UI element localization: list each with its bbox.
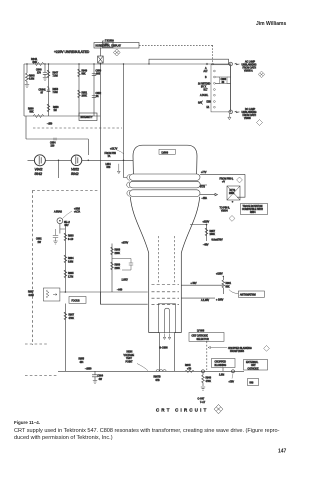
secondary tap -15A with arrow: [200, 193, 218, 195]
svg-text:Jim Williams: Jim Williams: [256, 21, 286, 27]
svg-text:R860: R860: [28, 109, 34, 111]
resistor R867B: [64, 312, 67, 320]
svg-text:5642: 5642: [35, 172, 43, 176]
svg-text:50K: 50K: [30, 112, 35, 114]
wire left rail: [23, 64, 25, 116]
chopped blanking source note: [208, 347, 227, 349]
svg-text:+V: +V: [222, 182, 225, 184]
svg-text:FROM CATH: FROM CATH: [243, 67, 257, 70]
svg-text:VOLTAGE: VOLTAGE: [124, 354, 135, 357]
svg-text:0.6m0/78V: 0.6m0/78V: [212, 240, 224, 242]
svg-text:.01: .01: [96, 96, 100, 98]
svg-text:545: 545: [107, 167, 112, 169]
svg-text:UNBLANKING: UNBLANKING: [242, 64, 257, 67]
astigmatism branch: [181, 284, 223, 286]
diamond symbol: [257, 120, 263, 126]
svg-text:V1035: V1035: [244, 118, 251, 120]
node junctions on top bus: [26, 63, 149, 64]
svg-text:A: A: [205, 67, 207, 70]
svg-text:7A: 7A: [108, 155, 111, 158]
svg-text:BLT: BLT: [204, 90, 209, 92]
svg-text:BY X: BY X: [201, 86, 207, 88]
svg-text:R857: R857: [210, 231, 216, 233]
svg-text:C808: C808: [221, 79, 227, 81]
resistor R843 to ground: [26, 64, 29, 84]
svg-text:+7B: +7B: [187, 368, 192, 370]
svg-text:+0.7A: +0.7A: [74, 211, 81, 214]
svg-text:2.7M: 2.7M: [68, 276, 73, 278]
svg-text:ALT: ALT: [204, 70, 209, 73]
wire feedback loop: [237, 174, 245, 197]
svg-text:+ 105V: + 105V: [216, 300, 224, 302]
svg-text:TRACE ROTATION: TRACE ROTATION: [243, 205, 263, 208]
svg-text:POINT: POINT: [126, 361, 134, 363]
box chopped blanking: [212, 359, 236, 368]
box intensity: [79, 113, 97, 121]
capacitor C854 inline: [54, 138, 56, 141]
diamond symbol below display box: [113, 49, 120, 56]
wire intensity line -150V: [24, 115, 100, 117]
wire drop into transformer primary: [124, 160, 127, 177]
svg-text:+10M: +10M: [74, 209, 80, 211]
capacitor C850 C852 column: [93, 64, 95, 116]
svg-text:16 W/TEND: 16 W/TEND: [198, 83, 211, 85]
socket pins: [214, 70, 216, 108]
svg-text:HIGH: HIGH: [127, 352, 133, 354]
wire -1850 rail (long vertical): [99, 64, 101, 304]
svg-text:7–17: 7–17: [200, 402, 206, 404]
svg-text:UNBLANKING: UNBLANKING: [242, 111, 257, 114]
box external CRT cathode: [244, 360, 268, 371]
svg-text:+ 50V: + 50V: [191, 283, 198, 285]
svg-text:CHOPPED: CHOPPED: [215, 361, 227, 363]
svg-text:FROM PIN: FROM PIN: [105, 153, 117, 155]
diamond symbol: [258, 71, 264, 77]
svg-text:R776: R776: [230, 190, 236, 192]
svg-text:FROM CATH: FROM CATH: [243, 114, 257, 117]
svg-text:R867: R867: [69, 315, 75, 317]
heater filament: [165, 308, 170, 332]
svg-text:CRT CATHODE: CRT CATHODE: [192, 335, 209, 338]
svg-text:R864: R864: [68, 258, 74, 260]
svg-text:R867B: R867B: [154, 377, 161, 379]
diode CR841: [47, 89, 51, 92]
svg-text:4W: 4W: [99, 379, 103, 381]
svg-text:−15A: −15A: [202, 197, 208, 200]
wire neon to divider: [60, 224, 66, 234]
svg-text:R868: R868: [115, 250, 121, 252]
svg-text:548: 548: [250, 383, 255, 385]
svg-text:100K: 100K: [82, 96, 88, 98]
svg-text:L854: L854: [106, 164, 112, 166]
svg-text:INTENSITY: INTENSITY: [81, 117, 93, 119]
transformer winding band 1: [130, 174, 201, 180]
svg-text:97: 97: [41, 93, 44, 95]
svg-text:COMPATIBLE WITH: COMPATIBLE WITH: [242, 208, 263, 211]
svg-text:Figure 11–4.: Figure 11–4.: [14, 420, 40, 425]
svg-text:ASTIGMATISM: ASTIGMATISM: [240, 294, 256, 297]
svg-text:R849: R849: [82, 71, 88, 73]
svg-text:5642: 5642: [71, 172, 79, 176]
svg-text:8–C806: 8–C806: [160, 348, 169, 350]
arrow current direction: [117, 164, 120, 174]
svg-text:C850: C850: [96, 71, 102, 73]
wire grid electrode: [100, 292, 147, 304]
svg-text:−150: −150: [47, 124, 53, 126]
svg-text:FROM PIN 6,: FROM PIN 6,: [220, 179, 234, 181]
svg-text:R865: R865: [68, 273, 74, 275]
resistor R849 R851 column: [78, 64, 80, 116]
diamond symbol: [264, 346, 270, 352]
svg-text:220K: 220K: [115, 268, 121, 270]
svg-text:E1: E1: [207, 107, 211, 109]
svg-text:C852: C852: [96, 93, 102, 95]
svg-text:+77V: +77V: [201, 172, 207, 174]
heater winding on bottom wire: [156, 370, 166, 372]
svg-text:R863: R863: [68, 236, 74, 238]
resistor R845 inline: [185, 370, 194, 373]
resistor R841 inline: [33, 62, 44, 65]
potentiometer P866 focus: [43, 288, 60, 301]
svg-text:220K: 220K: [115, 253, 121, 255]
svg-text:EXTERNAL: EXTERNAL: [246, 361, 259, 364]
transformer T801 CRT envelope: [133, 145, 197, 174]
svg-text:1M: 1M: [54, 110, 57, 112]
ground: [43, 78, 47, 81]
capacitor C863: [112, 259, 133, 271]
svg-text:147: 147: [278, 449, 287, 455]
svg-text:TEST: TEST: [126, 358, 132, 360]
node junction at V852 output: [88, 160, 90, 162]
svg-text:R847: R847: [53, 73, 59, 75]
svg-text:R845: R845: [185, 365, 191, 367]
terminal cathode: [232, 370, 235, 373]
svg-text:R851: R851: [82, 93, 88, 95]
CRT grid dashed electrodes in neck: [152, 284, 180, 286]
ground: [201, 387, 205, 390]
svg-text:AC LAMP: AC LAMP: [245, 61, 256, 64]
wire focus electrode: [60, 291, 148, 293]
svg-text:1W: 1W: [38, 242, 42, 244]
svg-text:50K: 50K: [226, 286, 231, 288]
terminal AC unblanking: [229, 62, 233, 66]
svg-text:3.9M: 3.9M: [68, 261, 73, 263]
box focus: [69, 297, 86, 304]
svg-text:duced with permission of Tektr: duced with permission of Tektronix, Inc.…: [14, 435, 113, 441]
svg-text:7.5M: 7.5M: [53, 76, 58, 78]
svg-text:R859: R859: [53, 107, 59, 109]
svg-text:T K 500: T K 500: [105, 39, 114, 43]
svg-text:3.3M: 3.3M: [29, 79, 34, 81]
svg-text:56K: 56K: [82, 74, 87, 76]
svg-text:R843: R843: [29, 76, 35, 78]
dashed enclosure regulator section: [32, 190, 98, 192]
wire focus lead down: [64, 304, 66, 372]
primary lead bumps left: [127, 175, 130, 197]
svg-text:+225V UNREGULATED: +225V UNREGULATED: [54, 50, 90, 54]
svg-text:R861: R861: [226, 283, 232, 285]
svg-text:CRT: CRT: [251, 365, 256, 367]
resistor R857: [205, 228, 208, 236]
secondary tap 477B: [200, 184, 207, 186]
svg-text:A 55AG: A 55AG: [54, 211, 62, 214]
svg-text:−1850: −1850: [85, 369, 92, 371]
svg-text:LV 808: LV 808: [197, 331, 205, 333]
svg-text:V1034: V1034: [221, 211, 228, 213]
trimmer R776: [227, 186, 240, 200]
svg-text:V1035 A: V1035 A: [244, 70, 253, 73]
label T801 box: [159, 149, 175, 154]
svg-text:+75V: +75V: [229, 382, 235, 384]
dashed wire from display box to socket pin: [139, 44, 213, 46]
svg-text:R853: R853: [53, 89, 59, 91]
node +223V junction: [206, 224, 208, 226]
socket outline box: [211, 65, 231, 112]
box horizontal display: [94, 43, 139, 49]
svg-text:HORIZONTAL DISPLAY: HORIZONTAL DISPLAY: [96, 45, 122, 48]
svg-text:3.9M: 3.9M: [29, 295, 34, 297]
svg-text:B: B: [205, 77, 207, 79]
svg-text:+223V: +223V: [203, 222, 210, 224]
svg-text:SELECTOR: SELECTOR: [197, 339, 210, 341]
ground arrow below DC terminal: [228, 114, 231, 120]
potentiometer R860 inline: [33, 114, 44, 117]
diamond symbol: [237, 177, 243, 183]
svg-text:1.8KV: 1.8KV: [122, 280, 129, 282]
svg-text:C862: C862: [36, 239, 42, 241]
svg-text:454: 454: [80, 362, 85, 364]
svg-text:C864: C864: [98, 376, 104, 378]
svg-text:C840: C840: [36, 70, 42, 72]
svg-text:DC LAMP: DC LAMP: [245, 108, 256, 111]
tube V852: [71, 155, 82, 166]
svg-text:220: 220: [51, 146, 56, 148]
svg-text:+13.7V: +13.7V: [110, 149, 118, 151]
svg-text:A 1.05V: A 1.05V: [201, 299, 210, 302]
wire top bus +225V: [24, 63, 230, 65]
pin circles on top bus: [206, 63, 208, 65]
svg-text:8–10: 8–10: [68, 239, 74, 241]
svg-text:270: 270: [37, 73, 42, 75]
svg-text:CRT supply used in Tektronix 5: CRT supply used in Tektronix 547. C808 r…: [14, 428, 280, 434]
svg-text:477B: 477B: [200, 187, 206, 189]
svg-text:V842: V842: [35, 168, 43, 172]
resistor R846 to ground: [202, 373, 205, 386]
box S4B: [248, 379, 259, 386]
capacitor C862: [53, 229, 58, 244]
wire grid line to tubes: [26, 116, 88, 155]
svg-text:−65V: −65V: [203, 245, 209, 247]
diamond symbol: [229, 216, 235, 222]
svg-text:1.8M: 1.8M: [219, 375, 224, 377]
transformer winding band 2: [129, 181, 200, 188]
node below V842 output: [58, 160, 60, 162]
wire riser from top bus to cathode line: [123, 64, 125, 160]
svg-text:A DUAL: A DUAL: [200, 94, 209, 97]
svg-text:C–547: C–547: [198, 399, 205, 401]
svg-text:NE–2: NE–2: [64, 222, 70, 224]
box astigmatism: [238, 291, 264, 297]
svg-text:TO PIN 8,: TO PIN 8,: [220, 208, 231, 210]
svg-text:67B: 67B: [156, 380, 161, 382]
gun column walls: [159, 333, 174, 372]
secondary tap +77V: [200, 173, 245, 175]
svg-text:+375V: +375V: [122, 243, 129, 245]
svg-text:E3B: E3B: [207, 102, 212, 104]
CRT gun dashed risers: [159, 236, 175, 283]
svg-text:CRT CIRCUIT: CRT CIRCUIT: [156, 408, 209, 413]
svg-text:R855: R855: [79, 359, 85, 361]
svg-text:BLANKING: BLANKING: [215, 364, 227, 367]
resistor R861: [222, 277, 225, 295]
dashed section boundary: [33, 127, 122, 129]
svg-text:R846: R846: [206, 378, 212, 380]
terminal DC unblanking: [229, 110, 233, 114]
svg-text:100K: 100K: [210, 234, 216, 236]
transformer winding band 3: [130, 190, 201, 197]
capacitor C808: [220, 77, 227, 84]
tube V842: [34, 155, 45, 166]
svg-text:CHOPPED BLANKING: CHOPPED BLANKING: [228, 347, 252, 350]
ground: [93, 381, 97, 384]
svg-text:CR841: CR841: [39, 90, 47, 92]
dashed wire selector to cathode: [206, 341, 208, 370]
svg-text:200K: 200K: [229, 193, 235, 195]
divider chain R863 R864 R865: [64, 225, 66, 292]
diamond symbol CRT circuit: [214, 405, 223, 414]
svg-text:−940: −940: [117, 290, 123, 292]
wire bypass jumper over socket: [149, 59, 229, 64]
svg-text:FROM V1854: FROM V1854: [230, 351, 245, 353]
svg-text:C854: C854: [50, 143, 56, 145]
box trace rotation: [241, 204, 268, 215]
fuse F801 with line box: [103, 41, 114, 48]
ground: [25, 85, 29, 88]
divider R868 R869 column: [111, 244, 113, 293]
resistor chain R847 R853 R859: [48, 64, 50, 116]
svg-text:LV808: LV808: [162, 152, 169, 154]
svg-text:V852: V852: [71, 168, 79, 172]
heater lead arrows: [163, 334, 170, 340]
wire cathode line through tubes: [28, 159, 134, 161]
svg-text:CATHODE: CATHODE: [248, 367, 260, 370]
wire -1850V bottom bus: [58, 370, 244, 372]
svg-text:470K: 470K: [206, 381, 212, 383]
socket right bus wire: [230, 66, 232, 110]
capacitor C840 to ground: [43, 64, 47, 77]
wire chopped blanking to bus: [222, 368, 224, 372]
terminal test point: [202, 370, 205, 373]
svg-text:7.5M: 7.5M: [53, 92, 58, 94]
capacitor C864 to ground: [92, 371, 98, 380]
svg-text:R867: R867: [28, 292, 34, 294]
svg-text:R854: R854: [250, 212, 256, 214]
svg-text:FOCUS: FOCUS: [72, 301, 81, 303]
svg-text:50K: 50K: [33, 60, 38, 64]
neon lamp B867: [57, 218, 63, 224]
svg-text:R869: R869: [115, 265, 121, 267]
svg-text:+225V: +225V: [216, 274, 223, 276]
CRT gun inner structure: [158, 304, 175, 333]
svg-text:.005: .005: [96, 74, 101, 76]
svg-text:470K: 470K: [69, 318, 75, 320]
